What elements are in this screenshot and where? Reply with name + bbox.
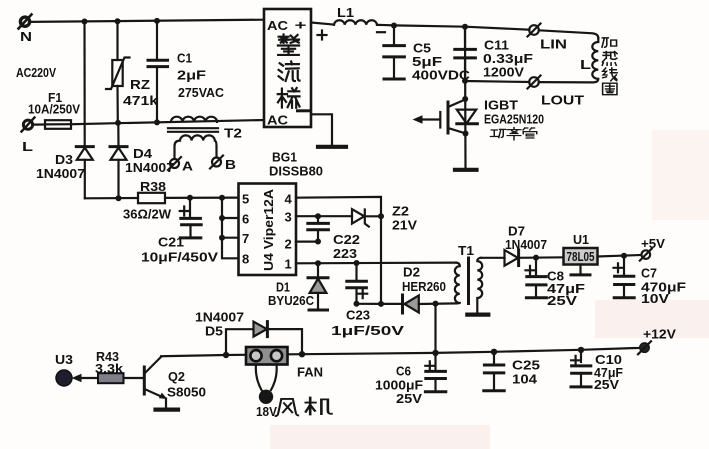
- terminal LIN: [528, 24, 541, 37]
- wire D2 junction to rail: [434, 304, 436, 353]
- node rail D5 right: [299, 351, 305, 357]
- node N-D3: [82, 19, 88, 25]
- wire R43-U3: [80, 377, 98, 379]
- transformer T1 secondary: [477, 258, 482, 313]
- svg-text:10μF/450V: 10μF/450V: [141, 250, 218, 265]
- capacitor C1: [148, 21, 168, 122]
- svg-text:25V: 25V: [396, 391, 422, 406]
- capacitor C7: [614, 256, 635, 298]
- wire bridge plus out: [311, 23, 334, 25]
- svg-text:A: A: [182, 159, 194, 174]
- T1 core: [467, 258, 470, 304]
- capacitor C8: [526, 258, 547, 298]
- svg-text:EGA25N120: EGA25N120: [484, 112, 544, 127]
- node C23 bottom: [354, 301, 360, 307]
- capacitor C23: [347, 263, 367, 304]
- glyph jia (heating): [602, 38, 617, 47]
- node emitter: [463, 131, 469, 137]
- svg-text:BG1: BG1: [272, 150, 297, 165]
- node L-D4: [115, 120, 121, 126]
- svg-text:C23: C23: [346, 308, 370, 323]
- glyph re (heating): [602, 52, 617, 66]
- svg-text:RZ: RZ: [130, 77, 150, 92]
- wire D5 left leg: [226, 329, 254, 355]
- svg-text:C7: C7: [641, 266, 657, 281]
- svg-text:LOUT: LOUT: [541, 93, 584, 108]
- svg-text:36Ω/2W: 36Ω/2W: [123, 207, 172, 222]
- IGBT emitter link: [448, 128, 465, 133]
- rectifier bridge BG1: [264, 9, 311, 127]
- drain bus wire: [222, 198, 239, 259]
- svg-text:223: 223: [333, 246, 357, 261]
- ground bridge minus: [318, 145, 346, 149]
- node D2-T1-rail: [433, 301, 439, 307]
- svg-text:2: 2: [285, 237, 292, 252]
- resistor R38: [138, 193, 165, 203]
- svg-text:1N4007: 1N4007: [195, 310, 244, 325]
- glyph quan (heating): [603, 83, 617, 95]
- wire T1-D7: [481, 257, 505, 259]
- transformer T1 primary: [455, 263, 460, 304]
- svg-text:L1: L1: [337, 5, 354, 20]
- glyph ji (fan): [306, 398, 332, 415]
- svg-text:1: 1: [285, 257, 292, 272]
- wire LOUT: [465, 81, 529, 82]
- node L-C1: [154, 119, 160, 125]
- ground T1 secondary: [467, 313, 488, 317]
- svg-text:104: 104: [512, 372, 538, 387]
- plus sign L1 left: [318, 31, 327, 40]
- svg-text:400VDC: 400VDC: [412, 68, 471, 83]
- svg-text:7: 7: [242, 231, 249, 246]
- svg-text:+5V: +5V: [641, 236, 665, 251]
- ground Q2 emitter: [156, 408, 179, 412]
- svg-text:U1: U1: [573, 232, 589, 247]
- wire bridge minus out: [311, 114, 332, 145]
- svg-text:B: B: [225, 157, 236, 172]
- svg-text:1200V: 1200V: [483, 65, 524, 80]
- node N-C1: [154, 18, 160, 24]
- svg-text:D5: D5: [205, 324, 223, 339]
- capacitor C11: [455, 27, 476, 81]
- T2 core: [168, 128, 218, 132]
- node rail C6: [432, 350, 438, 356]
- node U1-C7: [621, 253, 627, 259]
- svg-text:C21: C21: [158, 235, 184, 250]
- varistor RZ: [106, 21, 130, 123]
- wire pin4: [296, 197, 381, 304]
- svg-text:+12V: +12V: [643, 327, 676, 342]
- terminal L: [22, 118, 35, 132]
- connector FAN: [246, 347, 288, 365]
- node C5: [391, 23, 397, 29]
- glyph lv (power tube): [507, 128, 521, 140]
- svg-text:4: 4: [285, 192, 293, 207]
- svg-text:AC: AC: [267, 113, 289, 128]
- terminal A: [168, 157, 181, 170]
- svg-text:8: 8: [242, 252, 249, 267]
- fan leads: [256, 365, 277, 390]
- paper smudge topright: [652, 130, 709, 220]
- node pin4-snubber: [378, 301, 384, 307]
- glyph feng (fan): [276, 399, 298, 416]
- fuse F1: [33, 120, 71, 129]
- diode D7: [505, 250, 564, 266]
- diode D2: [403, 295, 457, 313]
- node D4-R38: [116, 195, 122, 201]
- regulator U1 78L05: [564, 248, 598, 265]
- transformer T2 secondary: [175, 135, 217, 158]
- transistor Q2: [144, 357, 167, 408]
- glyph qiao (bridge): [278, 88, 300, 108]
- svg-text:18V: 18V: [256, 404, 277, 419]
- node pin1-C23: [354, 260, 360, 266]
- svg-text:C22: C22: [333, 232, 360, 247]
- svg-text:1N4007: 1N4007: [125, 160, 174, 175]
- terminal LOUT: [528, 76, 541, 89]
- wire L line: [71, 120, 264, 124]
- svg-text:21V: 21V: [392, 218, 417, 233]
- diode D4: [110, 123, 127, 198]
- IGBT gate wire: [421, 118, 439, 120]
- node N-RZ: [115, 18, 121, 24]
- svg-text:DISSB80: DISSB80: [269, 164, 323, 179]
- minus sign L1 right: [377, 31, 385, 33]
- svg-text:6: 6: [242, 212, 249, 227]
- svg-text:L: L: [580, 57, 591, 72]
- glyph zheng (bridge): [278, 35, 299, 55]
- node LOUT-C11: [462, 78, 468, 84]
- svg-text:25V: 25V: [547, 293, 577, 308]
- svg-text:+: +: [295, 18, 308, 33]
- terminal U3: [56, 370, 72, 386]
- svg-text:BYU26C: BYU26C: [268, 293, 315, 308]
- wire U1 out: [598, 255, 642, 257]
- node bus pin6: [219, 215, 225, 221]
- arrow to U3: [72, 374, 82, 382]
- svg-text:2μF: 2μF: [177, 68, 206, 83]
- IGBT gate arrow: [413, 115, 423, 124]
- terminal N: [19, 15, 32, 29]
- node rail C10: [578, 347, 584, 353]
- wire pin2: [296, 241, 318, 243]
- svg-text:3.3k: 3.3k: [95, 361, 124, 376]
- terminal +12V: [638, 341, 651, 354]
- svg-text:LIN: LIN: [540, 37, 567, 52]
- ground IGBT emitter: [455, 168, 477, 172]
- svg-text:C25: C25: [512, 358, 540, 373]
- capacitor C5: [384, 26, 405, 80]
- diode D3: [76, 22, 93, 199]
- node collector: [462, 96, 468, 102]
- svg-text:3: 3: [285, 210, 292, 225]
- svg-text:AC: AC: [267, 18, 289, 33]
- node D7-C8: [533, 255, 539, 261]
- svg-text:FAN: FAN: [297, 365, 323, 380]
- IGBT internal diode: [457, 110, 478, 124]
- heating coil wire top: [539, 30, 599, 38]
- paper smudge right: [595, 300, 709, 338]
- node pin3-C22: [315, 213, 321, 219]
- diode D1: [308, 263, 328, 310]
- fan motor: [259, 390, 273, 404]
- glyph xian (heating): [603, 68, 617, 81]
- svg-text:C1: C1: [177, 51, 192, 66]
- svg-text:Q2: Q2: [168, 369, 185, 384]
- svg-text:N: N: [20, 29, 32, 44]
- capacitor C6: [425, 353, 446, 392]
- wire R43-Q2 base: [124, 377, 144, 379]
- svg-text:IGBT: IGBT: [484, 98, 518, 113]
- terminal +5V: [640, 249, 652, 261]
- svg-text:T2: T2: [224, 126, 242, 141]
- glyph guan (power tube): [523, 128, 537, 138]
- bridge pin minus: [298, 109, 309, 112]
- wire pin3-Z2: [296, 215, 352, 217]
- node C11 top: [462, 24, 468, 30]
- inductor L1: [334, 20, 377, 25]
- node rail C25: [491, 349, 497, 355]
- U1 ground pin: [571, 265, 590, 275]
- wire N line: [30, 20, 264, 22]
- capacitor C21: [180, 198, 202, 238]
- node Z2-pin4: [378, 213, 384, 219]
- svg-text:1μF/50V: 1μF/50V: [331, 323, 404, 338]
- svg-text:AC220V: AC220V: [16, 65, 56, 80]
- node rail D5 left: [223, 352, 229, 358]
- svg-text:25V: 25V: [594, 377, 619, 392]
- resistor R43: [98, 373, 124, 383]
- svg-text:275VAC: 275VAC: [178, 85, 225, 100]
- IGBT gate bar: [439, 112, 441, 128]
- wire pin1 to T1: [296, 262, 456, 265]
- wire IGBT collector-emitter: [464, 27, 467, 168]
- svg-text:HER260: HER260: [402, 279, 446, 294]
- wire R38-U4: [165, 197, 239, 199]
- wire snubber bottom: [357, 303, 402, 305]
- svg-text:D2: D2: [403, 265, 420, 280]
- wire +12V rail: [161, 348, 640, 356]
- glyph liu (bridge): [279, 62, 300, 82]
- svg-text:471k: 471k: [123, 93, 159, 108]
- svg-text:L: L: [22, 139, 33, 154]
- svg-text:1N4007: 1N4007: [36, 166, 85, 181]
- glyph gong (power tube): [491, 129, 506, 137]
- svg-text:R38: R38: [140, 179, 166, 194]
- node pin1-D1: [315, 260, 321, 266]
- wire D3-D4-R38: [85, 197, 138, 200]
- svg-text:78L05: 78L05: [567, 249, 595, 264]
- svg-text:C6: C6: [396, 364, 411, 379]
- wire L1 to LIN: [377, 25, 529, 30]
- IGBT body bar: [447, 102, 450, 133]
- terminal B: [210, 156, 223, 169]
- node pin2-C22: [315, 239, 321, 245]
- svg-text:Z2: Z2: [392, 204, 409, 219]
- capacitor C22: [308, 216, 329, 241]
- node bus pin7: [219, 235, 225, 241]
- svg-text:1N4007: 1N4007: [505, 237, 547, 252]
- capacitor C25: [484, 352, 504, 391]
- diode D5: [254, 322, 303, 354]
- svg-text:D3: D3: [55, 152, 73, 167]
- zener Z2: [352, 209, 381, 226]
- paper smudge bottom: [270, 425, 490, 449]
- svg-text:T1: T1: [458, 243, 474, 258]
- svg-text:U3: U3: [55, 352, 73, 367]
- svg-text:U4 Viper12A: U4 Viper12A: [261, 188, 276, 271]
- node bus pin5: [219, 195, 225, 201]
- svg-text:10V: 10V: [641, 291, 669, 306]
- IGBT collector link: [448, 100, 465, 107]
- heating coil L: [539, 38, 599, 82]
- transformer T2 primary: [171, 117, 217, 122]
- node R38-C21: [187, 195, 193, 201]
- svg-text:S8050: S8050: [167, 385, 206, 400]
- svg-text:10A/250V: 10A/250V: [28, 102, 80, 117]
- capacitor C10: [571, 350, 591, 387]
- op-amp U4 Viper12A box: [239, 184, 297, 276]
- svg-text:5: 5: [242, 192, 249, 207]
- svg-text:D4: D4: [133, 146, 153, 161]
